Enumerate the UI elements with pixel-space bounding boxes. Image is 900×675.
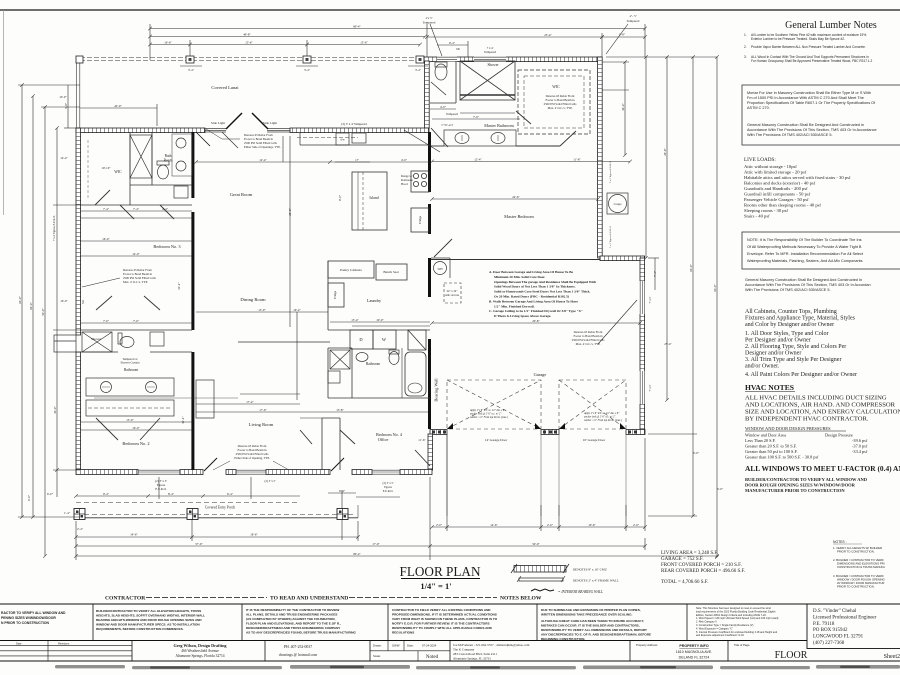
svg-text:9'-8": 9'-8" <box>619 33 626 37</box>
contractor header row <box>105 596 542 602</box>
rebar note left wing <box>123 268 157 285</box>
bedroom2 egress window band <box>138 470 180 474</box>
svg-text:2. All Flooring Type, Style an: 2. All Flooring Type, Style and Colors P… <box>745 344 846 350</box>
garage door A bold notes <box>489 270 596 318</box>
lanai post A <box>76 56 83 63</box>
master bath dim row y161 <box>432 161 630 163</box>
svg-text:Title of Page: Title of Page <box>734 643 750 647</box>
front door sidelight band right <box>267 129 290 132</box>
svg-text:Attic without storage - 10psf: Attic without storage - 10psf <box>744 164 797 169</box>
svg-text:FLOOR PLAN AND ELEVATIONS, AND: FLOOR PLAN AND ELEVATIONS, AND REPORT TO… <box>246 622 341 626</box>
svg-text:Fixtures and Appliance Type, M: Fixtures and Appliance Type, Material, S… <box>745 316 856 322</box>
dimension texts left col rotated <box>18 95 68 501</box>
svg-text:14'-6": 14'-6" <box>130 533 138 537</box>
laundry upper cabinet <box>328 283 344 307</box>
svg-text:Tempered: Tempered <box>484 50 496 54</box>
bottom wall CMU seg2 <box>180 470 203 475</box>
jack and jill bath top wall <box>80 330 192 352</box>
designer info cell <box>173 643 227 659</box>
dimension texts interior <box>81 104 581 430</box>
right vertical dim 25'-4" <box>666 57 668 400</box>
svg-text:Greater than 100 S.F. to 500 S: Greater than 100 S.F. to 500 S.F. - 30.8… <box>745 455 819 460</box>
svg-text:7' x 5': 7' x 5' <box>648 296 652 303</box>
HVAC paragraph <box>745 395 900 423</box>
svg-text:7'-4": 7'-4" <box>103 207 110 211</box>
svg-text:29'-8": 29'-8" <box>288 208 292 216</box>
svg-text:E.E.R.O.: E.E.R.O. <box>383 489 394 493</box>
svg-text:With The Provisions Of TMS 402: With The Provisions Of TMS 402/ACI 530/A… <box>747 133 833 137</box>
master suite door swings <box>431 82 576 147</box>
right vertical dim 66'-0" b <box>716 57 718 557</box>
main top wall CMU segment left <box>76 128 205 133</box>
left wing toilet <box>157 161 169 179</box>
svg-text:12'-4": 12'-4" <box>474 158 482 162</box>
svg-text:CONTRACTOR TO FIELD VERIFY ALL: CONTRACTOR TO FIELD VERIFY ALL EXISTING … <box>392 608 491 612</box>
top dimension row 16'-6" / 15'-6" <box>150 44 190 46</box>
living room dim row y412 <box>196 411 428 413</box>
right small dims near garage windows <box>654 258 656 290</box>
svg-text:1'-4": 1'-4" <box>64 511 71 515</box>
svg-text:BEARING HEIGHTS,WINDOW AND DOO: BEARING HEIGHTS,WINDOW AND DOOR ROUGH OP… <box>96 618 202 622</box>
svg-text:80'-4": 80'-4" <box>353 24 361 28</box>
svg-text:66'-0": 66'-0" <box>689 264 693 272</box>
svg-text:15'-0": 15'-0" <box>258 308 266 312</box>
svg-text:Accordance With The Provisions: Accordance With The Provisions Of This S… <box>747 128 877 132</box>
svg-text:IT IS THE RESPONSIBILITY OF TH: IT IS THE RESPONSIBILITY OF THE CONTRACT… <box>246 608 339 612</box>
svg-text:29'-8": 29'-8" <box>532 319 540 323</box>
top dimension line 25'-4" <box>427 36 602 38</box>
master bath small dims 9'-4" <box>437 44 468 46</box>
svg-text:80'-4": 80'-4" <box>353 552 361 556</box>
cell5 shrinkage note <box>541 608 651 641</box>
svg-text:Dining Room: Dining Room <box>240 297 266 302</box>
svg-text:7'-0": 7'-0" <box>133 319 140 323</box>
jj LN <box>150 332 164 346</box>
svg-text:Per Designer and/or Owner: Per Designer and/or Owner <box>745 338 811 344</box>
hall dim row y404 <box>196 403 300 405</box>
svg-text:GWW: GWW <box>392 644 400 648</box>
garage door corner anchors <box>447 423 626 429</box>
kitchen island <box>352 172 387 230</box>
legend interior bearing wall squiggle <box>531 589 554 591</box>
rebar note bottom center <box>234 444 270 461</box>
svg-text:Room: Room <box>164 159 173 163</box>
svg-text:PENING SIZES W/WINDOW/DOOR: PENING SIZES W/WINDOW/DOOR <box>1 616 56 620</box>
interior dim row bedroom3 y241 <box>80 240 192 242</box>
title block table borders <box>0 604 900 661</box>
svg-text:2'-4": 2'-4" <box>77 527 84 531</box>
svg-text:16'-4": 16'-4" <box>293 308 301 312</box>
garage front wall segment 3 <box>626 430 645 435</box>
garage north wall <box>431 259 600 261</box>
svg-text:4'-0": 4'-0" <box>401 158 408 162</box>
hall bath tub <box>405 352 426 396</box>
svg-text:Covered Entry Porch: Covered Entry Porch <box>205 506 236 510</box>
svg-text:HEIGHTS, SLAB HEIGHTS, SOFFIT: HEIGHTS, SLAB HEIGHTS, SOFFIT OVERHANG W… <box>96 614 205 618</box>
svg-text:17'-0": 17'-0" <box>372 542 380 546</box>
svg-text:10' Garage Door: 10' Garage Door <box>583 438 606 442</box>
svg-text:7 x 5' Egress E.E.R.O.: 7 x 5' Egress E.E.R.O. <box>609 160 612 183</box>
svg-text:16'-6": 16'-6" <box>164 40 172 44</box>
svg-text:-39.6 psf: -39.6 psf <box>852 438 868 443</box>
svg-text:Great Room: Great Room <box>230 192 253 197</box>
svg-text:Envelope. Refer To MFR. Instal: Envelope. Refer To MFR. Installation Rec… <box>747 252 864 256</box>
svg-text:Date: Date <box>16 641 22 645</box>
cell7 engineer block <box>813 609 877 646</box>
svg-text:ANY DISCREPENCIES TO E. OF R.: ANY DISCREPENCIES TO E. OF R. AND DESIGN… <box>541 633 651 637</box>
svg-text:Stairs - 40 psf: Stairs - 40 psf <box>744 214 770 219</box>
svg-text:1.: 1. <box>744 33 747 37</box>
garage dim row y323 29'-8" <box>432 322 640 324</box>
svg-text:66'-0": 66'-0" <box>18 296 22 304</box>
top dimension line 49'-8" <box>150 36 425 38</box>
garage right wall CMU <box>640 258 645 434</box>
svg-text:FLOOR: FLOOR <box>775 650 808 661</box>
svg-text:Greg Wilson, Design Drafting: Greg Wilson, Design Drafting <box>173 643 227 648</box>
bottom wall CMU seg6 <box>400 470 432 475</box>
dining niche bump <box>196 380 214 418</box>
svg-text:ALL HVAC DETAILS INCLUDING DUC: ALL HVAC DETAILS INCLUDING DUCT SIZING <box>745 395 887 402</box>
rebar note leader arrows front door <box>213 461 289 470</box>
svg-text:4. All Paint Colors Per Design: 4. All Paint Colors Per Designer and/or … <box>745 372 857 378</box>
leader line rebar note garage <box>598 300 637 344</box>
svg-text:(3) 3' x 4' Tempered: (3) 3' x 4' Tempered <box>341 122 367 126</box>
svg-text:Greater than 20 S.F. to 50 S.F: Greater than 20 S.F. to 50 S.F. <box>745 444 797 449</box>
svg-text:Fridge: Fridge <box>418 215 422 224</box>
svg-text:Mt: Mt <box>456 47 460 51</box>
porch door leaf <box>331 458 344 471</box>
svg-text:PROPERTY INFO: PROPERTY INFO <box>679 644 708 648</box>
svg-text:Covered Lanai: Covered Lanai <box>211 85 239 90</box>
svg-text:PH. 407-252-0037: PH. 407-252-0037 <box>284 645 312 649</box>
svg-text:Bearing Wall: Bearing Wall <box>434 378 439 402</box>
svg-text:Tempered: Tempered <box>627 19 640 23</box>
svg-text:Noted: Noted <box>426 655 439 660</box>
svg-text:15'-6": 15'-6" <box>245 40 253 44</box>
svg-text:10'-6": 10'-6" <box>588 523 596 527</box>
garage front wall segment 2 <box>541 430 559 435</box>
svg-text:57'-0": 57'-0" <box>195 542 203 546</box>
wall between master bedroom and garage <box>600 256 645 261</box>
svg-text:LIVING AREA = 3,248 S.F.: LIVING AREA = 3,248 S.F. <box>661 551 718 556</box>
svg-text:Fridge: Fridge <box>333 290 337 299</box>
svg-text:CONSTRUCTION & TRUSS MANUFA: CONSTRUCTION & TRUSS MANUFA <box>837 565 885 569</box>
bottom wall CMU seg4 <box>266 470 330 475</box>
svg-text:13'-0": 13'-0" <box>126 418 134 422</box>
svg-text:66'-0": 66'-0" <box>713 284 717 292</box>
master shower with X <box>460 61 515 100</box>
svg-text:TO READ AND UNDERSTAND: TO READ AND UNDERSTAND <box>270 596 348 602</box>
master suite toilet room wall <box>430 61 456 103</box>
washer dryer <box>350 330 396 349</box>
bottom dim row porch small <box>341 490 343 508</box>
svg-text:A. Door Between Garage and Liv: A. Door Between Garage and Living Area O… <box>489 270 573 274</box>
svg-text:Proportion Specifications Of T: Proportion Specifications Of Table R607.… <box>747 101 876 105</box>
svg-text:GARAGE = 752 S.F.: GARAGE = 752 S.F. <box>661 557 704 562</box>
svg-text:2.: 2. <box>744 45 747 49</box>
great room half wall <box>94 342 300 398</box>
svg-text:D.S. "Vinder" Chehal: D.S. "Vinder" Chehal <box>813 609 857 614</box>
svg-text:15'-6": 15'-6" <box>360 40 368 44</box>
waterproofing note box <box>742 232 900 269</box>
svg-text:WIC: WIC <box>114 170 122 174</box>
jj toilet <box>118 333 134 348</box>
svg-text:and Color by Designer and/or O: and Color by Designer and/or Owner <box>745 322 834 328</box>
svg-text:BUILDER/CONTRACTOR TO VERIFY A: BUILDER/CONTRACTOR TO VERIFY ALL ELEVATI… <box>96 609 201 613</box>
svg-text:Passenger Vehicle Garages - 50: Passenger Vehicle Garages - 50 psf <box>744 197 809 202</box>
svg-text:50'-0": 50'-0" <box>532 542 540 546</box>
svg-text:Joe McFadzean - 321-662-5557 -: Joe McFadzean - 321-662-5557 - diamondjk… <box>453 643 530 647</box>
lanai post B <box>186 56 194 63</box>
svg-text:Window and Door Area: Window and Door Area <box>745 433 786 438</box>
svg-text:2'-0": 2'-0" <box>633 523 640 527</box>
left wing sinks <box>172 134 192 176</box>
svg-text:12'-4": 12'-4" <box>259 158 267 162</box>
svg-text:Coupe: Coupe <box>614 202 623 206</box>
leader line rebar note top <box>404 130 440 152</box>
svg-text:Rooms other than sleeping room: Rooms other than sleeping rooms - 40 psf <box>744 203 821 208</box>
svg-text:7 x 4' Egress E.E.R.O.: 7 x 4' Egress E.E.R.O. <box>52 215 56 241</box>
lumber note 2 <box>744 45 866 49</box>
svg-text:7' x 5': 7' x 5' <box>648 384 652 391</box>
svg-text:10'-0": 10'-0" <box>376 318 384 322</box>
jj vanity two sinks <box>86 378 174 396</box>
svg-text:≈+6'-4.5: ≈+6'-4.5 <box>441 123 453 127</box>
svg-text:Pantry Cabinets: Pantry Cabinets <box>340 268 362 272</box>
svg-text:(2) 3' x 5': (2) 3' x 5' <box>265 479 276 483</box>
svg-text:3'-4": 3'-4" <box>188 68 195 72</box>
svg-text:16'-0": 16'-0" <box>132 426 140 430</box>
interior dim rows left wing y422/430 <box>80 421 192 423</box>
svg-text:drawings @ hotmail.com: drawings @ hotmail.com <box>279 653 317 657</box>
svg-text:2'- 5': 2'- 5' <box>630 14 637 18</box>
svg-text:Attic Access: Attic Access <box>445 294 459 297</box>
apply anchor note door2 <box>583 412 622 422</box>
svg-text:Less Than 20 S.F.: Less Than 20 S.F. <box>745 438 776 443</box>
svg-text:25'-4": 25'-4" <box>664 342 672 346</box>
pressures table <box>745 433 868 460</box>
area summary <box>661 551 745 585</box>
svg-text:D: D <box>359 337 362 342</box>
left vertical dim line 66'-0" <box>21 85 23 517</box>
sheet top border <box>0 9 900 11</box>
apply anchor note door1 <box>469 409 508 419</box>
svg-text:9'-4": 9'-4" <box>449 41 456 45</box>
dimension texts bottom rows <box>47 438 640 556</box>
svg-text:5'-8": 5'-8" <box>64 102 68 109</box>
WH closet <box>431 258 450 278</box>
living room window band <box>236 470 266 474</box>
interior dim row left wing y255 14'-0" <box>80 255 192 257</box>
svg-text:PO BOX 915942: PO BOX 915942 <box>813 628 848 633</box>
garage door 1 dashed outline with X <box>447 380 541 429</box>
bearing wall right vertical <box>428 132 431 429</box>
porch column 3 <box>337 509 348 520</box>
svg-text:P.E. 79118: P.E. 79118 <box>813 622 835 627</box>
left small dims 5'-0" top <box>67 85 69 128</box>
svg-text:6'-4": 6'-4" <box>339 489 346 493</box>
svg-text:10'-0": 10'-0" <box>59 95 67 99</box>
garage front wall segment 1 <box>430 430 447 435</box>
svg-text:Provide Vapor Barrier Between: Provide Vapor Barrier Between ALL Non Pr… <box>751 45 866 49</box>
hall bath walls <box>328 348 430 398</box>
cell6 wind design note <box>696 607 779 637</box>
svg-text:466 Weathersfield Avenue: 466 Weathersfield Avenue <box>181 649 219 653</box>
svg-text:-33.4 psf: -33.4 psf <box>852 449 868 454</box>
svg-text:REAR COVERED PORCH = 496.66 S.: REAR COVERED PORCH = 496.66 S.F. <box>661 569 745 574</box>
bed4 door swings <box>300 430 430 466</box>
svg-text:CONTRACTOR: CONTRACTOR <box>105 596 146 602</box>
svg-text:25'-4": 25'-4" <box>544 33 552 37</box>
jj closet CL dashed rod <box>86 400 174 416</box>
left vertical dim line 60'-4" <box>32 96 34 517</box>
svg-text:50'-0": 50'-0" <box>41 308 45 316</box>
hall bath toilet <box>389 350 399 365</box>
dimension texts right col <box>621 103 724 491</box>
top wall CMU right segment <box>290 128 429 133</box>
small 3'-4" dims at posts <box>180 65 202 67</box>
svg-text:Fm of 1500 PSI In Accordance W: Fm of 1500 PSI In Accordance With ASTM C… <box>747 96 864 100</box>
svg-text:7'-0": 7'-0" <box>473 115 480 119</box>
svg-text:6'-0": 6'-0" <box>717 487 724 491</box>
master suite dim row y110 4'-0" <box>430 108 456 110</box>
master bath vanity counter <box>444 130 516 146</box>
svg-text:16'-0": 16'-0" <box>53 406 57 414</box>
great room dim verticals <box>282 136 284 162</box>
svg-text:DUE TO SHRINKAGE AND EXPANSION: DUE TO SHRINKAGE AND EXPANSION OF PRINTE… <box>541 608 641 612</box>
kitchen upper cabinet dashed line <box>297 137 358 139</box>
svg-text:Waterproofing Materials, Flash: Waterproofing Materials, Flashing, Seale… <box>747 259 863 263</box>
interior dim row left wing y323 <box>80 322 192 324</box>
svg-text:10'-10": 10'-10" <box>101 166 111 170</box>
lanai left screen edge <box>77 58 80 128</box>
svg-text:Sleeping rooms - 30 psf: Sleeping rooms - 30 psf <box>744 208 788 213</box>
master bedroom dim row y199 24'-6" <box>432 198 598 200</box>
svg-text:TOTAL = 4,706.66 S.F.: TOTAL = 4,706.66 S.F. <box>661 580 708 585</box>
svg-text:General Masonry Construction S: General Masonry Construction Shall Be De… <box>747 123 864 127</box>
svg-text:ALL WINDOWS TO MEET U-FACTOR (: ALL WINDOWS TO MEET U-FACTOR (0.4) AND S… <box>745 464 900 473</box>
svg-text:Licensed Professional Engineer: Licensed Professional Engineer <box>813 616 877 621</box>
covered entry porch outline <box>76 503 358 518</box>
master bedroom door swing <box>434 239 452 257</box>
attic access dashed <box>444 283 461 303</box>
svg-text:Bench Seat: Bench Seat <box>383 270 398 274</box>
LN closet left wing <box>174 186 188 198</box>
WIC room walls (left wing) <box>80 132 192 205</box>
right vertical dim 14'-4" <box>624 62 626 155</box>
svg-text:MISTAKES CAN OCCUR. IT IS THE: MISTAKES CAN OCCUR. IT IS THE BUILDER AN… <box>541 624 640 628</box>
pantry cabinets box <box>328 261 374 278</box>
svg-text:42'-0": 42'-0" <box>114 104 122 108</box>
cell2 builder contractor note <box>96 609 205 631</box>
svg-text:Mortar For Use In Masonry Cons: Mortar For Use In Masonry Construction S… <box>747 91 871 95</box>
driveway edge lines <box>447 434 626 516</box>
jj shower X <box>82 332 112 352</box>
legend CMU bar <box>511 564 608 573</box>
drawn date scale grid <box>370 641 450 662</box>
svg-text:1/4" = 1': 1/4" = 1' <box>420 581 451 591</box>
svg-text:and Exposure adjustment Coeffi: and Exposure adjustment Coefficient =1.4… <box>696 634 744 637</box>
master wing right wall CMU <box>598 57 603 258</box>
front entry door leaf <box>204 458 217 471</box>
svg-text:BY INDEPENDENT HVAC CONTRACTOR: BY INDEPENDENT HVAC CONTRACTOR. <box>745 416 869 423</box>
top dimension line 9'-8" <box>602 36 645 38</box>
lumber note 3 <box>744 55 873 63</box>
master wing top wall CMU <box>424 57 602 62</box>
svg-text:8'-0": 8'-0" <box>338 194 342 201</box>
svg-text:Date:: Date: <box>407 644 414 648</box>
bedroom4 egress window band <box>372 470 400 474</box>
svg-text:11'-8": 11'-8" <box>573 158 581 162</box>
builder verify bold note <box>745 477 868 493</box>
left wall window bump-out <box>54 335 76 352</box>
left vertical dim line 50'-0" <box>44 107 46 556</box>
svg-text:Shower: Shower <box>488 63 500 67</box>
svg-text:Greater than 50 psf to 100 S.F: Greater than 50 psf to 100 S.F. <box>745 449 798 454</box>
left outer wall CMU upper <box>76 128 81 335</box>
svg-text:If There Is Living Space Above: If There Is Living Space Above Garage. <box>494 314 551 318</box>
svg-text:7 x 5' Egress E.E.R.O.: 7 x 5' Egress E.E.R.O. <box>609 225 612 248</box>
svg-text:12'-1": 12'-1" <box>181 416 185 424</box>
svg-text:17'-4": 17'-4" <box>246 400 254 404</box>
house/garage connector wall <box>428 434 433 470</box>
bottom long dim y556 80'-4" <box>76 555 717 557</box>
garage door 2 dashed outline with X <box>559 380 626 429</box>
svg-text:WH: WH <box>438 267 444 271</box>
svg-text:MANUFACTURER PRIOR TO CONSTRUC: MANUFACTURER PRIOR TO CONSTRUCTION <box>745 488 845 493</box>
svg-text:14'-6": 14'-6" <box>490 523 498 527</box>
svg-text:Accordance With The Provisions: Accordance With The Provisions Of This S… <box>745 283 871 287</box>
svg-text:DELAND FL 32724: DELAND FL 32724 <box>679 656 710 660</box>
svg-text:Sheet2: Sheet2 <box>884 654 900 660</box>
svg-text:Tempered: Tempered <box>423 21 436 25</box>
svg-text:Side Light: Side Light <box>211 121 225 125</box>
svg-text:1/2" Min. Finished Drywall.: 1/2" Min. Finished Drywall. <box>494 304 535 308</box>
svg-text:2'-6": 2'-6" <box>547 523 554 527</box>
svg-text:REGULATIONS: REGULATIONS <box>392 631 414 635</box>
svg-text:Garage: Garage <box>534 372 547 377</box>
svg-text:HVAC NOTES: HVAC NOTES <box>745 383 794 392</box>
svg-text:With The Provisions Of TMS 402: With The Provisions Of TMS 402/ACI 530/A… <box>745 288 831 292</box>
svg-text:DOOR ROUGH OPENING SIZES W/WIN: DOOR ROUGH OPENING SIZES W/WINDOW/DOOR <box>745 483 856 488</box>
svg-text:Office: Office <box>378 437 389 442</box>
svg-text:LONGWOOD FL 32791: LONGWOOD FL 32791 <box>813 635 864 640</box>
scanned page bottom edge smudge <box>55 665 900 669</box>
svg-text:General Lumber Notes: General Lumber Notes <box>785 20 877 31</box>
mortar note box <box>742 85 900 145</box>
svg-text:17': 17' <box>355 158 359 162</box>
leader 2x5 tempered <box>430 24 442 56</box>
LN closet hall <box>328 371 340 383</box>
svg-text:14'-0": 14'-0" <box>132 252 140 256</box>
svg-text:d/w: d/w <box>340 139 344 142</box>
svg-text:ALL PLANS, DETAILS AND TRUSS E: ALL PLANS, DETAILS AND TRUSS ENGINEERING… <box>246 613 338 617</box>
svg-text:29'-8": 29'-8" <box>663 148 667 156</box>
designer owner list <box>745 331 857 378</box>
svg-text:Master Bedroom: Master Bedroom <box>504 214 534 219</box>
svg-text:(407) 227-7368: (407) 227-7368 <box>813 641 845 646</box>
svg-text:Bedroom No. 3: Bedroom No. 3 <box>153 244 181 249</box>
svg-text:7'-0": 7'-0" <box>103 319 110 323</box>
svg-text:washer = 6" From top & bot. (m: washer = 6" From top & bot. (max.) <box>584 419 622 422</box>
svg-text:FRONT COVERED PORCH = 210 S.F.: FRONT COVERED PORCH = 210 S.F. <box>661 563 742 568</box>
right vertical dim 66'-0" a <box>692 57 694 516</box>
left vertical dim line 14'-4"/16'-0" <box>56 128 58 497</box>
svg-text:RESPONSIBILITY TO VERIFY ALL D: RESPONSIBILITY TO VERIFY ALL DIMENSIONS … <box>541 628 647 632</box>
master WIC dashed walls <box>518 70 590 134</box>
svg-text:NOTES BELOW: NOTES BELOW <box>500 596 542 602</box>
master bath wall below vanity <box>430 145 560 147</box>
